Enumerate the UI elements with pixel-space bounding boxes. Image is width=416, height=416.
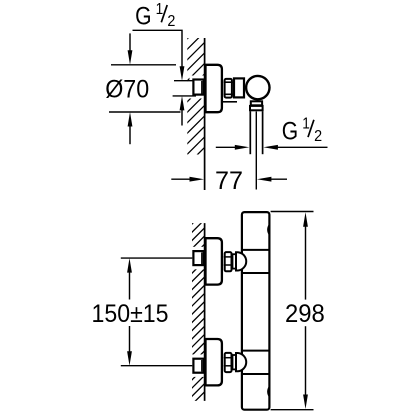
298 dimension — [271, 211, 314, 213]
bar block division lines top union — [242, 249, 269, 251]
end plug crescent bottom — [267, 385, 269, 398]
valve body circle (top view) — [246, 76, 269, 99]
bottom union: taper — [233, 355, 237, 369]
svg-text:1: 1 — [302, 116, 310, 133]
svg-text:2: 2 — [167, 13, 175, 30]
svg-text:2: 2 — [314, 128, 322, 145]
halos around wall nuts (bottom view) — [187, 247, 205, 269]
G 1/2 top label — [135, 1, 175, 31]
wall face line (bottom view) — [204, 223, 206, 401]
union nut behind wall (top view) — [193, 80, 203, 95]
top union: wall nut — [193, 251, 203, 265]
down pipe (top view) — [249, 111, 251, 154]
top union: escutcheon — [206, 238, 222, 284]
supply pipe stub behind wall (top view) — [174, 81, 194, 95]
svg-text:298: 298 — [285, 300, 325, 328]
bar block division lines bottom union — [242, 350, 269, 352]
G 1/2 pipe dimension — [216, 146, 238, 148]
svg-text:150±15: 150±15 — [92, 300, 169, 328]
bottom union: wall nut — [193, 359, 203, 373]
thermostat bar body — [242, 212, 270, 410]
bottom union: escutcheon — [206, 339, 222, 385]
pipe center line — [255, 112, 257, 190]
arrow down to union thread top — [180, 66, 185, 81]
G 1/2 leader bracket — [133, 30, 183, 69]
svg-text:77: 77 — [215, 167, 243, 195]
77 dimension — [171, 178, 192, 180]
svg-text:1: 1 — [156, 1, 164, 18]
svg-text:Ø70: Ø70 — [105, 76, 149, 104]
end plug crescent top — [267, 223, 269, 236]
svg-text:G: G — [282, 118, 298, 146]
top union: taper — [233, 254, 237, 268]
extension line thread top — [174, 80, 196, 82]
halo around union nut (top view) — [190, 76, 205, 99]
dia 70 dimension — [129, 33, 131, 54]
bottom union: hex nut — [225, 353, 232, 372]
wall face line (top view) — [204, 38, 206, 190]
top union: dome boss — [236, 252, 246, 270]
arrow up to union thread bottom — [180, 96, 185, 111]
svg-text:G: G — [135, 3, 151, 31]
collar below circle — [251, 101, 262, 105]
bottom union: dome boss — [236, 353, 246, 371]
small ledge line under hex nut — [223, 101, 238, 103]
escutcheon (top view) — [206, 65, 222, 112]
top union: hex nut — [225, 252, 232, 271]
150 +/- 15 dimension line and arrows — [127, 258, 132, 273]
connector (top view) — [234, 78, 244, 97]
G 1/2 right label — [282, 116, 322, 146]
hex nut (top view) — [225, 79, 232, 98]
extension line thread bottom — [173, 95, 196, 97]
150 +/- 15 dimension extension lines — [121, 257, 193, 259]
